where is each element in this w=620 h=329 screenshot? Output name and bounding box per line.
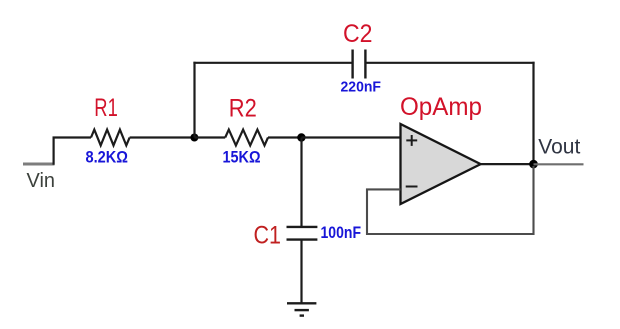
resistor R1 bbox=[91, 130, 130, 146]
op-amp U1 bbox=[401, 124, 481, 204]
capacitor C2 bbox=[353, 50, 366, 79]
svg-text:100nF: 100nF bbox=[321, 224, 362, 242]
wire: node A to R2 bbox=[195, 136, 226, 138]
svg-text:8.2KΩ: 8.2KΩ bbox=[86, 148, 129, 166]
svg-text:OpAmp: OpAmp bbox=[400, 93, 482, 121]
svg-text:C1: C1 bbox=[254, 222, 282, 250]
svg-text:Vout: Vout bbox=[538, 135, 580, 159]
svg-text:R1: R1 bbox=[94, 94, 118, 122]
wire: op-amp output to output node bbox=[481, 163, 534, 165]
wire: top rail left of C2 bbox=[193, 62, 352, 64]
op-amp − input marker bbox=[406, 186, 418, 188]
svg-text:C2: C2 bbox=[343, 20, 373, 48]
svg-text:220nF: 220nF bbox=[341, 79, 382, 96]
wire: top rail right of C2 bbox=[365, 62, 534, 64]
wire: node A riser to top rail bbox=[193, 62, 195, 138]
junction: output node bbox=[529, 160, 538, 169]
wire: C1 to ground bbox=[300, 240, 302, 304]
resistor R2 bbox=[225, 130, 268, 146]
junction node B bbox=[297, 133, 305, 141]
wire: R2 to node B bbox=[268, 136, 302, 138]
svg-text:R2: R2 bbox=[229, 95, 257, 123]
wire: R1 to node A bbox=[130, 136, 195, 138]
wire: Vout terminal stub bbox=[534, 163, 584, 165]
ground bbox=[287, 303, 316, 315]
svg-text:15KΩ: 15KΩ bbox=[223, 149, 261, 167]
wire: Vin riser to R1 bbox=[54, 138, 91, 165]
wire: right drop from top rail to output node bbox=[532, 62, 534, 164]
wire: feedback loop from output node to op-amp − input bbox=[367, 166, 534, 234]
op-amp + input marker bbox=[406, 135, 417, 146]
wire: node B to op-amp + input bbox=[302, 136, 401, 138]
capacitor C1 bbox=[287, 227, 318, 240]
junction node A bbox=[190, 134, 198, 142]
wire: node B down to C1 bbox=[300, 138, 302, 227]
svg-text:Vin: Vin bbox=[27, 170, 56, 192]
wire: Vin terminal stub bbox=[23, 163, 55, 166]
